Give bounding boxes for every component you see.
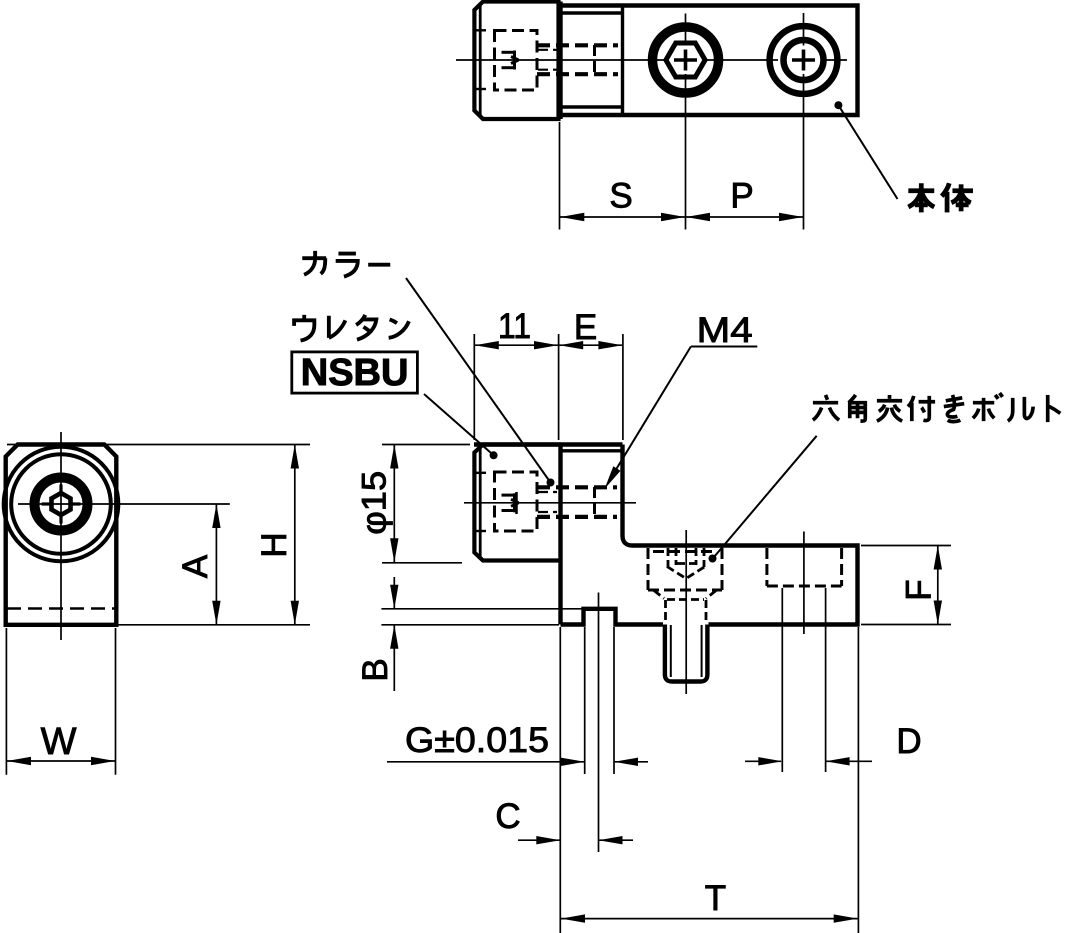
C dimension: [518, 839, 633, 841]
svg-text:NSBU: NSBU: [301, 352, 409, 394]
svg-text:E: E: [574, 308, 597, 347]
collar label (kara): [302, 251, 390, 277]
column edges top view: [561, 6, 623, 116]
hex socket head bolt protruding thread front view: [665, 625, 708, 682]
D extension lines: [782, 588, 825, 772]
body label (honhtai): [908, 183, 973, 212]
bolt head ring side view: [35, 478, 88, 531]
svg-text:φ15: φ15: [356, 471, 394, 535]
center cross clearance hole: [792, 50, 815, 71]
svg-text:P: P: [730, 177, 753, 216]
centerline vertical clearance hole: [803, 13, 805, 230]
centerline bolt axis front view: [464, 502, 636, 504]
D dimension: [745, 760, 872, 762]
11 and E extension lines: [474, 334, 623, 440]
hidden bolt head front view: [495, 472, 538, 531]
collar front view: [474, 445, 560, 561]
urethane chamfer circle side view: [11, 454, 111, 554]
collar hidden-head tick marks front view: [475, 473, 487, 531]
F dimension: [861, 546, 951, 625]
S dimension: [560, 216, 685, 218]
side view body square: [6, 445, 117, 625]
T dimension: [561, 918, 858, 920]
counterbore circle top view: [770, 26, 838, 94]
center cross hex bolt hole: [674, 50, 697, 71]
svg-text:H: H: [255, 532, 294, 557]
center tick urethane face front view: [515, 492, 518, 514]
counterbore ring with bolt head top view: [653, 27, 719, 93]
svg-text:C: C: [495, 797, 520, 836]
hidden hex socket of bolt front view: [667, 548, 705, 579]
svg-text:B: B: [356, 658, 395, 681]
svg-text:D: D: [896, 722, 921, 761]
W extension lines: [6, 628, 115, 775]
column inner top edge front view: [561, 449, 621, 452]
svg-text:T: T: [705, 879, 726, 918]
body outline top view: [559, 2, 858, 120]
P dimension: [686, 216, 803, 218]
hidden bolt shank and M4 tapped hole front view: [537, 487, 617, 517]
svg-text:11: 11: [498, 307, 531, 346]
centerline bolt vertical front view: [685, 530, 687, 694]
hex socket head bolt label: [813, 393, 1060, 422]
hidden bolt seat chamfer front view: [654, 591, 716, 624]
svg-text:M4: M4: [697, 311, 753, 350]
body outline front view: [474, 445, 858, 625]
11 dimension: [475, 344, 558, 346]
centerline horizontal top view: [456, 59, 847, 61]
hidden bolt shank and M4 tapped hole top view: [537, 45, 618, 74]
NSBU box: [292, 352, 418, 393]
hidden slot line side view: [7, 607, 115, 610]
G dimension: [387, 761, 648, 763]
svg-text:S: S: [609, 177, 632, 216]
NSBU leader line: [424, 394, 494, 455]
urethane outer circle side view: [4, 447, 119, 562]
W dimension: [7, 760, 115, 762]
S extension line: [559, 122, 561, 230]
H dimension: [294, 445, 296, 625]
hidden counterbore right front view: [767, 548, 842, 586]
B dimension: [381, 577, 582, 691]
bottom extension line: [118, 624, 310, 626]
M4 leader with underline: [609, 347, 757, 482]
collar leader line: [406, 278, 551, 483]
svg-text:F: F: [900, 579, 939, 600]
collar chamfer edge line top view: [479, 3, 482, 118]
urethane label (uretan): [294, 315, 409, 341]
centerline right hole front view: [803, 532, 805, 635]
center marks side view: [42, 485, 81, 524]
G extension lines: [560, 593, 858, 933]
A dimension: [215, 504, 217, 625]
collar chamfer edge line front view: [479, 446, 482, 559]
collar (urethane) top view: [474, 2, 558, 120]
svg-text:A: A: [176, 554, 215, 578]
collar hidden-head tick marks top view: [475, 30, 487, 89]
leader to body label: [834, 101, 842, 109]
hidden hex socket top view: [502, 51, 519, 70]
hex socket head bolt leader line: [714, 436, 817, 557]
hidden counterbore left front view: [648, 548, 722, 590]
hex socket side view: [52, 493, 71, 515]
E dimension: [559, 344, 622, 346]
through hole circle top view: [784, 40, 824, 80]
svg-text:W: W: [41, 721, 77, 763]
svg-text:G±0.015: G±0.015: [405, 721, 549, 760]
phi15 dimension: [382, 445, 470, 563]
hex socket top view: [666, 43, 705, 77]
H top extension line: [7, 444, 310, 446]
centerline horizontal side view / A extension: [18, 503, 230, 505]
centerline vertical hex bolt hole: [685, 14, 687, 230]
hidden hex socket front view: [502, 493, 519, 512]
hidden bolt head top view: [495, 31, 538, 91]
centerline vertical side view: [60, 432, 62, 640]
